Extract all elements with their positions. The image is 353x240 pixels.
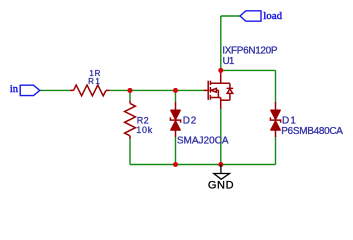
wire: U1 source to ground rail <box>220 109 222 165</box>
wire: R1 pin 2 to U1 gate (node A) <box>110 89 204 91</box>
wire: D1 top vertical <box>275 70 277 102</box>
ground <box>214 165 230 180</box>
wire: R2 bottom to ground rail <box>129 139 131 165</box>
svg-text:10k: 10k <box>136 125 153 135</box>
wire: node A down to D2 top <box>175 90 177 102</box>
junction at node A / R2 top <box>127 88 132 93</box>
junction at ground rail / U1 source / GND <box>218 162 223 167</box>
junction at drain node <box>218 68 223 73</box>
resistor R1 <box>70 85 110 96</box>
svg-text:R1: R1 <box>88 77 101 86</box>
wire: node A down to R2 top <box>129 90 131 100</box>
wire: load port down to drain node <box>220 16 222 70</box>
junction at ground rail / D2 bottom <box>173 162 178 167</box>
wire: D1 bottom to ground rail <box>275 137 277 165</box>
svg-text:GND: GND <box>208 180 234 192</box>
svg-text:D2: D2 <box>183 115 197 126</box>
wire: port in to R1 pin 1 <box>40 89 70 91</box>
wire: load port horizontal <box>221 15 240 17</box>
transistor U1 (N-MOSFET with body diode) <box>203 70 233 109</box>
junction at node A / D2 top <box>173 88 178 93</box>
svg-text:P6SMB480CA: P6SMB480CA <box>281 126 343 137</box>
wire: ground rail <box>130 164 276 166</box>
svg-text:in: in <box>10 84 19 95</box>
resistor R2 <box>125 100 136 139</box>
svg-text:SMAJ20CA: SMAJ20CA <box>177 136 229 147</box>
port load <box>240 11 261 21</box>
wire: D2 bottom to ground rail <box>175 137 177 165</box>
svg-text:U1: U1 <box>223 56 235 67</box>
port in <box>20 85 40 95</box>
diode D1 (bidirectional TVS) <box>270 102 280 137</box>
diode D2 (bidirectional TVS) <box>170 102 180 137</box>
wire: drain node to D1 top <box>221 69 276 71</box>
svg-text:load: load <box>263 10 282 22</box>
